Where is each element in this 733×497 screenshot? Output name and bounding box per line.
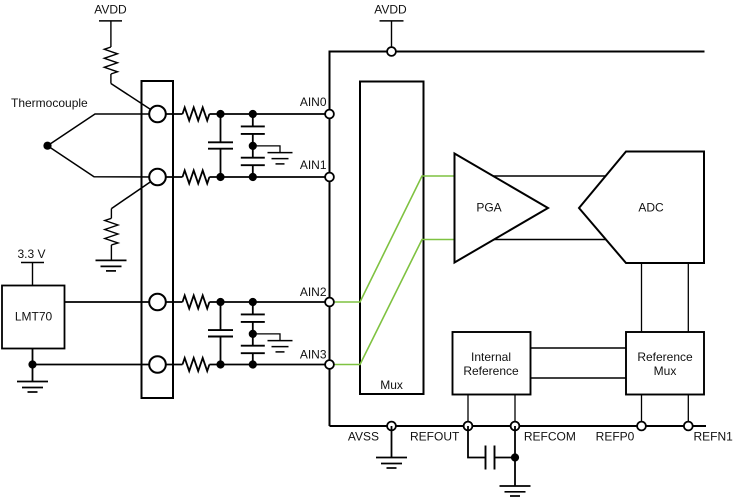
IC block bottom edge xyxy=(330,425,707,427)
ground (C5-C6) xyxy=(268,341,293,352)
wire: REFCOM down to ground xyxy=(514,426,516,486)
wire: Reference Mux to REFN1 pin xyxy=(687,395,689,427)
wire: R6 to AIN3 pin xyxy=(209,364,329,366)
wire: PGA output to ADC (bottom) xyxy=(490,239,608,241)
svg-text:REFOUT: REFOUT xyxy=(410,430,460,444)
wire: AIN2 row, pin3 to R5 xyxy=(158,301,183,303)
node: thermocouple junction xyxy=(43,142,51,150)
connector pin 3 circle xyxy=(149,294,166,311)
capacitor C2 (AIN0 to ground) xyxy=(241,114,265,158)
svg-text:REFN1: REFN1 xyxy=(694,430,733,444)
node: AIN2 row dot 1 xyxy=(216,298,224,306)
wire: LMT70 GND to connector pin 4 xyxy=(33,364,158,366)
resistor R4 (AIN1 filter) xyxy=(183,170,210,183)
node: AIN0 row dot 1 xyxy=(216,110,224,118)
block Reference Mux xyxy=(626,332,704,395)
node: AIN3 row dot 2 xyxy=(249,360,257,368)
svg-text:Mux: Mux xyxy=(654,364,677,378)
wire: AVSS to ground xyxy=(391,426,393,458)
svg-text:REFP0: REFP0 xyxy=(596,430,635,444)
svg-text:Mux: Mux xyxy=(380,378,403,392)
connector pin 1 circle xyxy=(149,106,166,123)
wire: Internal Reference to Reference Mux (bottom) xyxy=(531,377,627,379)
svg-text:AVSS: AVSS xyxy=(348,430,379,444)
wire: C2-C3 junction to ground xyxy=(253,146,280,153)
svg-text:Thermocouple: Thermocouple xyxy=(11,96,88,110)
node: LMT70 ground junction xyxy=(28,360,36,368)
node: AIN2 row dot 2 xyxy=(249,298,257,306)
block ADC (pentagon) xyxy=(579,152,704,264)
svg-text:AIN1: AIN1 xyxy=(300,158,327,172)
resistor R2 (bias to ground, vertical) xyxy=(105,209,118,261)
wire: junction to ground xyxy=(32,365,34,382)
connector pin 4 circle xyxy=(149,356,166,373)
wire: AIN3 to Mux to PGA (green) xyxy=(330,240,455,365)
wire: REFOUT to C7 xyxy=(468,426,486,458)
resistor R5 (AIN2 filter) xyxy=(183,295,210,308)
block Internal Reference xyxy=(453,332,531,395)
wire: thermocouple negative lead xyxy=(48,146,158,177)
svg-text:REFCOM: REFCOM xyxy=(524,430,576,444)
capacitor C4 (differential, AIN2-AIN3) xyxy=(208,302,233,365)
node: REFCOM-C7 junction xyxy=(511,453,519,461)
pin AIN1 xyxy=(300,158,334,181)
IC U2 LMT70 xyxy=(2,286,65,349)
amplifier PGA xyxy=(455,154,549,263)
power symbol AVDD (IC pin) xyxy=(374,3,407,52)
IC block Mux xyxy=(360,82,424,395)
wire: C5-C6 junction to ground xyxy=(253,334,280,341)
resistor R1 (AVDD bias, vertical) xyxy=(104,47,117,84)
wire: LMT70 GND down xyxy=(32,349,34,365)
wire: connector pin 2 to R2 (diagonal) xyxy=(111,177,157,209)
svg-text:AVDD: AVDD xyxy=(94,3,127,17)
node: C2-C3 junction xyxy=(249,142,257,150)
wire: R3 to AIN0 pin xyxy=(209,113,329,115)
pin AIN3 xyxy=(300,348,334,369)
pin AIN0 xyxy=(300,95,334,118)
pin REFN1 xyxy=(684,422,733,444)
svg-text:Internal: Internal xyxy=(471,350,511,364)
wire: AIN1 row, pin2 to R4 xyxy=(158,176,183,178)
wire: Internal Reference to REFOUT pin xyxy=(467,395,469,427)
pin AVDD circle xyxy=(387,47,396,56)
svg-text:AIN3: AIN3 xyxy=(300,348,327,362)
ground (AVSS) xyxy=(376,458,407,469)
svg-text:AVDD: AVDD xyxy=(374,3,407,17)
IC block top edge (AVDD rail) xyxy=(330,51,705,53)
wire: R1 to connector pin 1 (diagonal) xyxy=(111,84,158,115)
capacitor C3 (AIN1 to ground) xyxy=(241,158,265,177)
resistor R3 (AIN0 filter) xyxy=(183,107,210,120)
capacitor C5 (AIN2 to ground) xyxy=(241,302,265,346)
wire: Internal Reference to REFCOM pin xyxy=(514,395,516,427)
ground (C2-C3) xyxy=(268,153,293,164)
svg-text:PGA: PGA xyxy=(476,201,501,215)
wire: AIN0 row, pin1 to R3 xyxy=(158,113,183,115)
wire: R5 to AIN2 pin xyxy=(209,301,329,303)
svg-text:Reference: Reference xyxy=(637,350,693,364)
ground (R2) xyxy=(96,260,127,271)
wire: AIN3 row, pin4 to R6 xyxy=(158,364,183,366)
node: C5-C6 junction xyxy=(249,330,257,338)
power symbol 3.3 V xyxy=(17,247,45,286)
wire: LMT70 VOUT to connector pin 3 xyxy=(65,301,158,303)
IC block left edge xyxy=(329,51,331,427)
svg-text:AIN2: AIN2 xyxy=(300,285,327,299)
wire: Reference Mux to REFP0 pin xyxy=(641,395,643,427)
svg-text:LMT70: LMT70 xyxy=(15,310,53,324)
wire: R4 to AIN1 pin xyxy=(209,176,329,178)
capacitor C1 (differential, AIN0-AIN1) xyxy=(208,114,233,177)
wire: ADC to Reference Mux (left) xyxy=(641,263,643,332)
pin REFCOM xyxy=(511,422,576,444)
svg-text:AIN0: AIN0 xyxy=(300,95,327,109)
node: AIN1 row dot 2 xyxy=(249,173,257,181)
wire: thermocouple positive lead xyxy=(48,114,158,146)
node: AIN0 row dot 2 xyxy=(249,110,257,118)
pin REFP0 xyxy=(596,422,646,444)
resistor R6 (AIN3 filter) xyxy=(183,358,210,371)
wire: AIN2 to Mux to PGA (green) xyxy=(330,176,455,302)
node: AIN3 row dot 1 xyxy=(216,360,224,368)
svg-text:Reference: Reference xyxy=(463,364,519,378)
pin AVSS xyxy=(348,422,396,444)
wire: ADC to Reference Mux (right) xyxy=(687,263,689,332)
capacitor C7 (REFOUT decoupling) xyxy=(486,446,516,470)
connector J1 body xyxy=(142,81,174,398)
svg-text:ADC: ADC xyxy=(638,201,664,215)
ground (LMT70) xyxy=(17,382,48,393)
pin REFOUT xyxy=(410,422,472,444)
power symbol AVDD (left rail) xyxy=(94,3,127,48)
wire: PGA output to ADC (top) xyxy=(490,175,608,177)
connector pin 2 circle xyxy=(149,169,166,186)
svg-text:3.3 V: 3.3 V xyxy=(17,247,45,261)
node: AIN1 row dot 1 xyxy=(216,173,224,181)
ground (REFCOM) xyxy=(500,486,531,496)
capacitor C6 (AIN3 to ground) xyxy=(241,346,265,365)
pin AIN2 xyxy=(300,285,334,306)
wire: Internal Reference to Reference Mux (top) xyxy=(531,347,627,349)
